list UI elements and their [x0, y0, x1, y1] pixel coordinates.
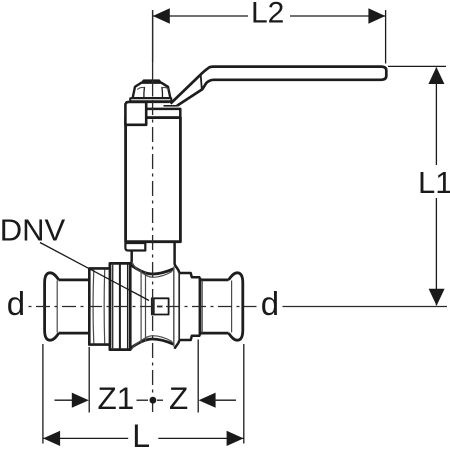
locknut chamfer arc right	[162, 87, 169, 89]
dimension L left arrow	[43, 431, 60, 446]
svg-text:L2: L2	[251, 0, 284, 29]
dimension L2	[153, 10, 386, 64]
svg-text:d: d	[261, 285, 279, 322]
union nut right edge line	[127, 263, 129, 349]
dimension L2 left arrow	[153, 8, 170, 24]
DNV marker dark edge	[151, 298, 154, 314]
DNV marker square	[152, 298, 169, 314]
hex facet b	[103, 270, 106, 344]
extension sleeve tall rectangle	[126, 118, 181, 242]
DNV leader line	[40, 243, 149, 301]
dimension Z1 arrow	[72, 393, 89, 408]
body right thin seam	[173, 267, 175, 347]
svg-text:DNV: DNV	[0, 212, 65, 247]
handle pivot plate lower edge	[164, 105, 178, 107]
valve handle lever	[171, 67, 387, 106]
right socket mouth inner line	[201, 281, 203, 333]
right socket top line	[200, 278, 228, 281]
locknut chamfer arc left	[137, 87, 144, 89]
svg-text:d: d	[7, 285, 25, 322]
right shoulder ledges top	[179, 273, 200, 277]
right shoulder ledges bottom	[179, 336, 200, 340]
svg-text:Z1: Z1	[98, 380, 135, 416]
bonnet bracket top-left	[125, 102, 146, 125]
body inner dome thin curve bottom	[132, 336, 173, 350]
dimension L bottom	[43, 344, 244, 444]
left socket bottom line	[59, 332, 90, 335]
locknut facet line right	[161, 87, 164, 98]
svg-text:L1: L1	[418, 165, 450, 200]
body bottom outer dome curve	[130, 339, 174, 349]
stem right edge below sleeve	[175, 242, 180, 273]
dimension L2 right arrow	[368, 8, 385, 24]
svg-text:L: L	[132, 418, 150, 450]
locknut facet line left	[143, 87, 146, 98]
dimension L right arrow	[227, 431, 244, 446]
locknut hex body	[133, 83, 171, 99]
wire horizontal pipe centerline	[29, 306, 448, 308]
locknut dome cap	[141, 80, 161, 83]
bottom notch box	[125, 243, 145, 251]
dimension Z arrow	[199, 393, 216, 408]
dimension Z1 Z	[55, 340, 237, 413]
stem left edge below notch	[128, 251, 132, 267]
hex nut of left fitting	[89, 268, 110, 344]
centerline dot inside square	[157, 306, 163, 308]
right socket mouth	[199, 277, 202, 335]
handle pivot plate edge	[145, 101, 169, 103]
svg-text:Z: Z	[169, 380, 188, 416]
union nut rib	[119, 263, 121, 349]
handle bend crease	[201, 75, 202, 89]
dimension L1 up arrow	[428, 67, 444, 84]
right socket bottom line	[200, 332, 228, 335]
right flange face seam	[178, 273, 180, 340]
dimension L1 down arrow	[429, 289, 445, 306]
hex facet a	[92, 270, 95, 344]
right press bead outer	[229, 273, 243, 340]
union nut inner edge line	[112, 263, 114, 349]
dimension L1	[388, 66, 446, 305]
body seam line 2	[145, 272, 147, 342]
right bead inner line	[231, 281, 233, 333]
left press bead outer	[45, 273, 59, 340]
body bottom-right corner	[175, 340, 180, 349]
body inner dome thin curve top	[132, 262, 173, 278]
body seam line 1	[140, 270, 142, 343]
left socket top line	[59, 278, 90, 281]
washer under nut	[130, 98, 171, 101]
dimension dot at center	[150, 397, 157, 404]
left bead inner line	[56, 281, 58, 333]
wire vertical centerline of stem	[152, 10, 154, 412]
body top outer dome curve	[130, 264, 174, 274]
union nut	[110, 263, 130, 349]
gland nut box under handle	[146, 109, 180, 118]
